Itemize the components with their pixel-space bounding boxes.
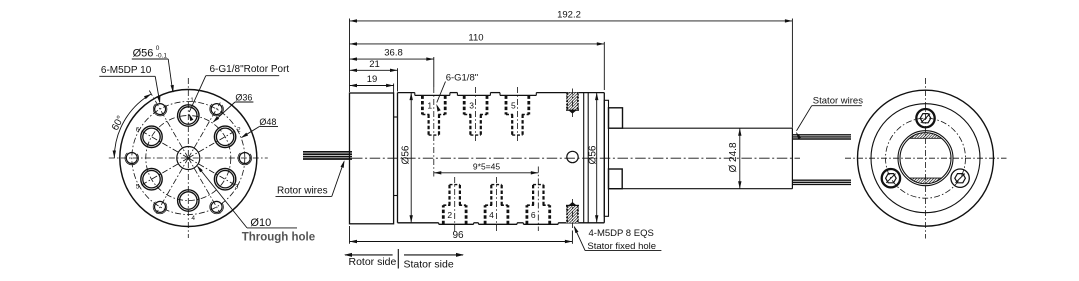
left view bolt circle Ø48 (dash-dot) [132, 102, 245, 215]
right view bolt circle (dash-dot) [886, 118, 966, 198]
left view label Ø36 with leader [213, 93, 254, 123]
svg-text:110: 110 [468, 32, 483, 43]
side view port 6 center line [537, 167, 539, 232]
svg-text:6-G1/8": 6-G1/8" [446, 73, 478, 84]
svg-text:6-M5DP 10: 6-M5DP 10 [101, 65, 152, 76]
right view vertical center line [925, 78, 927, 239]
stator shaft Ø24.8 outline [609, 128, 793, 189]
left view M5 tapped hole at 60 deg [210, 102, 224, 116]
side view port 2 center line [454, 177, 456, 231]
side view port 4 center line [496, 177, 498, 231]
left view rotor port hole 1 (G1/8) [178, 105, 199, 126]
left view horizontal center line [109, 157, 268, 159]
svg-text:Ø10: Ø10 [250, 217, 271, 229]
left view label Ø48 with leader [241, 117, 278, 138]
svg-text:Through hole: Through hole [242, 232, 315, 244]
svg-text:6-G1/8"Rotor Port: 6-G1/8"Rotor Port [210, 64, 290, 75]
left view M5 tapped hole at 300 deg [210, 200, 224, 214]
left view radial center line 120 deg [149, 91, 188, 159]
svg-text:Ø56: Ø56 [133, 48, 154, 60]
right view hex screw lower-left [882, 169, 900, 187]
rotor flange rectangle (side view) [350, 93, 394, 224]
stator fixed hole top (4-M5DP 8) [566, 89, 579, 118]
dimension 192.2 [350, 9, 793, 22]
svg-text:Ø56: Ø56 [587, 145, 598, 164]
svg-text:Rotor side: Rotor side [349, 256, 397, 268]
side view port 4 (G1/8) dashed [485, 185, 508, 225]
connector block top [609, 108, 623, 128]
svg-text:4: 4 [489, 210, 494, 220]
svg-text:Stator side: Stator side [404, 259, 454, 271]
svg-text:192.2: 192.2 [557, 9, 581, 20]
left view M5 tapped hole at 180 deg [125, 151, 139, 165]
right view hub outer circle [898, 131, 953, 186]
label 4-M5DP 8 EQS / Stator fixed hole with leader [574, 226, 662, 252]
svg-text:60°: 60° [110, 114, 127, 133]
svg-text:3: 3 [235, 184, 239, 191]
dimension Ø56 right [587, 93, 598, 223]
left view rotor port hole 5 (G1/8) [141, 169, 162, 190]
left view rotor port hole 6 (G1/8) [141, 126, 162, 147]
left view M5 tapped hole at 0 deg [238, 151, 252, 165]
dimension 21 [350, 59, 398, 72]
left view outer circle (rotor flange Ø56) [120, 90, 257, 227]
neck between rotor flange and body [394, 117, 398, 196]
stator wires bundle top [792, 135, 851, 139]
label 6-G1/8 on side view with leader [436, 73, 478, 112]
right view hub inner circle [900, 133, 951, 184]
left view radial center line 60 deg [188, 103, 220, 158]
side view port 1 center line [433, 87, 435, 177]
svg-text:6: 6 [531, 210, 536, 220]
svg-text:21: 21 [369, 59, 380, 70]
svg-text:Ø36: Ø36 [235, 93, 252, 103]
svg-text:Ø 24.8: Ø 24.8 [728, 142, 739, 172]
left view label Ø56 0/-0.1 with leader [132, 45, 174, 92]
stator wires bundle bottom [792, 180, 851, 184]
left view M5 tapped hole at 120 deg [153, 102, 167, 116]
connector block bottom [609, 169, 623, 189]
dimension 36.8 [350, 48, 434, 61]
dimension 9*5=45 [434, 161, 539, 174]
dimension 96 [350, 230, 573, 243]
right view hex screw lower-right [951, 169, 969, 187]
rotor wires bundle [303, 152, 352, 159]
svg-text:Ø48: Ø48 [259, 117, 276, 127]
svg-text:2: 2 [447, 210, 452, 220]
body internal joint lines [584, 93, 589, 223]
svg-text:19: 19 [367, 74, 378, 85]
label Rotor wires with leader [276, 160, 345, 196]
svg-text:9*5=45: 9*5=45 [473, 161, 500, 171]
svg-text:1: 1 [427, 100, 432, 110]
left view rotor port hole 2 (G1/8) [214, 126, 235, 147]
side view port 3 center line [475, 87, 477, 141]
left view rotor port hole 3 (G1/8) [214, 169, 235, 190]
svg-text:5: 5 [511, 100, 516, 110]
alignment pin hole on body [567, 151, 578, 162]
dimension Ø24.8 shaft [728, 128, 742, 189]
main horizontal center line [352, 157, 800, 159]
rotor side / stator side markers [344, 249, 464, 271]
slip ring body outline (side view) [398, 93, 605, 225]
right view horizontal center line [845, 157, 1007, 159]
label Stator wires with leader [796, 95, 863, 139]
right view hatched segment top [910, 133, 942, 138]
side view port 6 (G1/8) dashed [527, 185, 550, 225]
extension lines for dimensions [350, 19, 793, 244]
side view port 3 (G1/8) dashed [464, 95, 487, 135]
dimension 19 [350, 74, 394, 87]
svg-text:96: 96 [452, 230, 464, 241]
left view center through hole Ø10 [177, 147, 200, 170]
svg-text:Rotor wires: Rotor wires [277, 186, 328, 197]
right view hatched segment bottom [910, 178, 942, 183]
right view bore flat chords [910, 138, 942, 178]
left view 60 deg angular dimension arc [113, 94, 152, 158]
svg-text:6: 6 [136, 127, 140, 134]
left view radial center line 30 deg [188, 130, 237, 159]
left view radial center line 300 deg [188, 158, 220, 213]
left view label Ø10 Through hole with leader [197, 165, 315, 243]
svg-text:4-M5DP 8 EQS: 4-M5DP 8 EQS [589, 228, 654, 239]
dimension 110 [350, 32, 605, 45]
svg-text:Stator wires: Stator wires [813, 95, 863, 106]
left view M5 tapped hole at 240 deg [153, 200, 167, 214]
svg-text:4: 4 [191, 215, 195, 222]
left view label 6-G1/8 Rotor Port with leader [189, 64, 290, 121]
svg-text:2: 2 [237, 127, 241, 134]
side view port 5 (G1/8) dashed [506, 95, 529, 135]
right view outer circle [858, 90, 994, 226]
svg-text:Ø56: Ø56 [400, 145, 411, 164]
svg-text:3: 3 [469, 100, 474, 110]
left view radial center line 210 deg [139, 158, 188, 187]
left view port circle Ø36 (dash-dot) [146, 116, 231, 201]
left view rotor port hole 4 (G1/8) [178, 190, 199, 211]
svg-text:0: 0 [156, 45, 160, 52]
svg-text:5: 5 [136, 184, 140, 191]
left view radial center line 150 deg [139, 130, 188, 159]
right view hex screw top [916, 109, 934, 127]
side view port 5 center line [516, 87, 518, 141]
stator fixed hole bottom (4-M5DP 8) [566, 199, 579, 228]
left view radial center line 330 deg [188, 158, 237, 187]
dimension Ø56 left [400, 93, 413, 223]
stator end plate [604, 100, 608, 216]
left view label 6-M5DP 10 with leader [99, 65, 160, 104]
svg-text:36.8: 36.8 [384, 48, 403, 59]
right view inner flange circle [871, 104, 980, 213]
left view vertical center line [187, 78, 189, 238]
side view port 2 (G1/8) dashed [443, 185, 466, 225]
side view port 1 (G1/8) dashed [422, 95, 445, 135]
left view radial center line 240 deg [156, 158, 188, 213]
